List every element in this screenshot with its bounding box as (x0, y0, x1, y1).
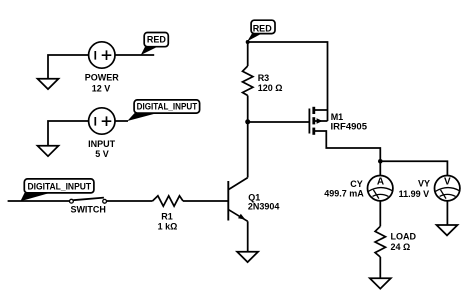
wire R3 top lead (247, 42, 249, 66)
ground GND1 (38, 79, 59, 89)
svg-text:120 Ω: 120 Ω (258, 83, 283, 93)
svg-text:R3: R3 (258, 73, 270, 83)
svg-text:A: A (377, 177, 384, 188)
ground GND2 (38, 146, 59, 156)
svg-text:R1: R1 (161, 211, 173, 221)
svg-text:2N3904: 2N3904 (248, 201, 280, 211)
svg-text:12 V: 12 V (92, 83, 111, 93)
ground GND3 (Q1 emitter) (237, 252, 258, 262)
node source junction dot (378, 159, 383, 164)
wire top rail (RED node to MOSFET) (248, 42, 328, 121)
svg-text:POWER: POWER (85, 72, 120, 82)
svg-text:11.99 V: 11.99 V (399, 189, 430, 199)
node RED corner dot (246, 40, 250, 44)
wire gate (248, 121, 310, 123)
wire switch to R1 (107, 200, 153, 202)
net flag RED (on V1) (141, 33, 169, 56)
resistor R1 1 kOhm (153, 196, 184, 232)
wire R3 bottom to Q1 collector (247, 96, 249, 178)
svg-text:IRF4905: IRF4905 (331, 122, 368, 132)
net flag DIGITAL_INPUT (on switch) (20, 179, 93, 201)
net flag RED (top rail) (247, 20, 275, 41)
svg-text:DIGITAL_INPUT: DIGITAL_INPUT (28, 181, 92, 191)
switch SWITCH (70, 198, 107, 215)
wire V2 right lead (115, 120, 129, 122)
svg-text:24 Ω: 24 Ω (391, 242, 411, 252)
wire V1 right lead (115, 54, 155, 56)
transistor M1 IRF4905 (p-MOSFET) (309, 107, 380, 176)
wire V1 left lead (48, 55, 89, 79)
ground GND4 (load) (370, 278, 391, 288)
ground GND5 (voltmeter) (437, 225, 458, 235)
wire V2 left lead (48, 121, 89, 146)
svg-text:LOAD: LOAD (391, 231, 417, 241)
svg-text:RED: RED (253, 23, 273, 33)
transistor Q1 2N3904 (228, 178, 279, 222)
wire Q1 emitter down (247, 221, 249, 251)
resistor LOAD 24 Ohm (375, 226, 416, 257)
svg-text:499.7 mA: 499.7 mA (324, 189, 364, 199)
ammeter CY 499.7 mA (324, 176, 393, 201)
svg-text:5 V: 5 V (95, 149, 109, 159)
voltmeter VY 11.99 V (399, 176, 460, 201)
svg-text:INPUT: INPUT (88, 139, 116, 149)
svg-text:V: V (444, 177, 451, 188)
wire voltmeter to ground (446, 201, 448, 225)
power source V1 POWER 12V (85, 42, 120, 94)
wire R1 to Q1 base (183, 200, 228, 202)
wire to voltmeter (380, 161, 447, 176)
svg-text:CY: CY (350, 179, 363, 189)
svg-text:1 kΩ: 1 kΩ (158, 221, 178, 231)
svg-text:RED: RED (147, 35, 167, 45)
resistor R3 120 Ohm (243, 66, 283, 96)
node gate junction dot (245, 119, 250, 124)
voltage source V2 INPUT 5V (88, 108, 116, 159)
wire ammeter to LOAD (379, 201, 381, 226)
wire LOAD to ground (379, 257, 381, 278)
net flag DIGITAL_INPUT (on V2) (127, 100, 199, 121)
svg-text:SWITCH: SWITCH (70, 205, 106, 215)
svg-text:VY: VY (418, 179, 430, 189)
svg-text:DIGITAL_INPUT: DIGITAL_INPUT (137, 102, 198, 112)
wire switch input segment (8, 200, 70, 202)
